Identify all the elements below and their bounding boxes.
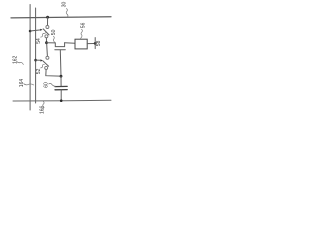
wire S2 pole from bus B (36, 59, 41, 61)
switch S2 arm (43, 61, 49, 66)
wire switch S1 upper lead (47, 17, 49, 25)
transistor Q1 channel (55, 43, 64, 47)
arrowhead on S1 pole wire (40, 29, 42, 31)
arrowhead on S2 pole wire (41, 59, 43, 61)
switch S1 arm (43, 29, 49, 35)
node junction dot on bottom rail (60, 99, 63, 102)
capacitor C1 bottom plate (55, 89, 67, 91)
wire S1 pole from bus A (30, 30, 40, 31)
label 50 transistor Q1 (51, 29, 57, 43)
node output junction dot (94, 42, 97, 45)
svg-text:54: 54 (36, 38, 42, 44)
wire bottom rail (13, 99, 111, 102)
label 52 switch S2 (36, 65, 44, 75)
wire transistor gate lead down (59, 50, 62, 76)
label 164 bus B (19, 79, 34, 88)
svg-text:166: 166 (40, 105, 46, 114)
switch S1 upper contact (46, 26, 49, 29)
switch S2 lower contact (45, 66, 48, 69)
wire transistor source lead (47, 42, 56, 44)
label 30 top rail (61, 2, 68, 17)
node junction dot on top rail (46, 16, 49, 19)
switch S2 upper contact (46, 56, 49, 59)
label 54 switch S1 (36, 32, 46, 43)
node junction dot on bus A (29, 30, 32, 33)
label 166 bottom rail (40, 101, 46, 114)
label 56 box (80, 22, 86, 38)
wire S1 lower contact to node (45, 38, 47, 42)
wire left bus line B (35, 8, 37, 103)
svg-text:162: 162 (12, 55, 18, 64)
label 162 bus A (12, 55, 23, 64)
svg-text:58: 58 (96, 40, 102, 46)
wire node to switch S2 upper lead (46, 44, 49, 56)
wire capacitor top lead (60, 76, 62, 86)
capacitor C1 top plate (55, 85, 67, 87)
svg-text:164: 164 (19, 79, 25, 88)
box U1 (75, 39, 87, 49)
wire top supply rail (11, 17, 111, 18)
svg-text:56: 56 (80, 22, 86, 28)
wire transistor drain lead (65, 42, 75, 44)
wire capacitor bottom lead (60, 90, 62, 101)
svg-text:52: 52 (36, 68, 42, 74)
svg-text:50: 50 (51, 29, 57, 35)
node junction dot on bus B (34, 59, 37, 62)
wire output stub (94, 38, 96, 49)
wire left bus line A (29, 5, 31, 111)
svg-text:30: 30 (61, 2, 67, 8)
wire box output lead (87, 43, 94, 45)
wire S2 lower lead and run to capacitor node (46, 70, 60, 77)
svg-text:60: 60 (44, 82, 50, 88)
transistor Q1 gate bar (55, 49, 66, 51)
node junction dot between switches (45, 41, 48, 44)
label 60 capacitor (44, 82, 56, 88)
switch S1 lower contact (45, 35, 48, 38)
node junction dot at gate-capacitor (60, 75, 63, 78)
